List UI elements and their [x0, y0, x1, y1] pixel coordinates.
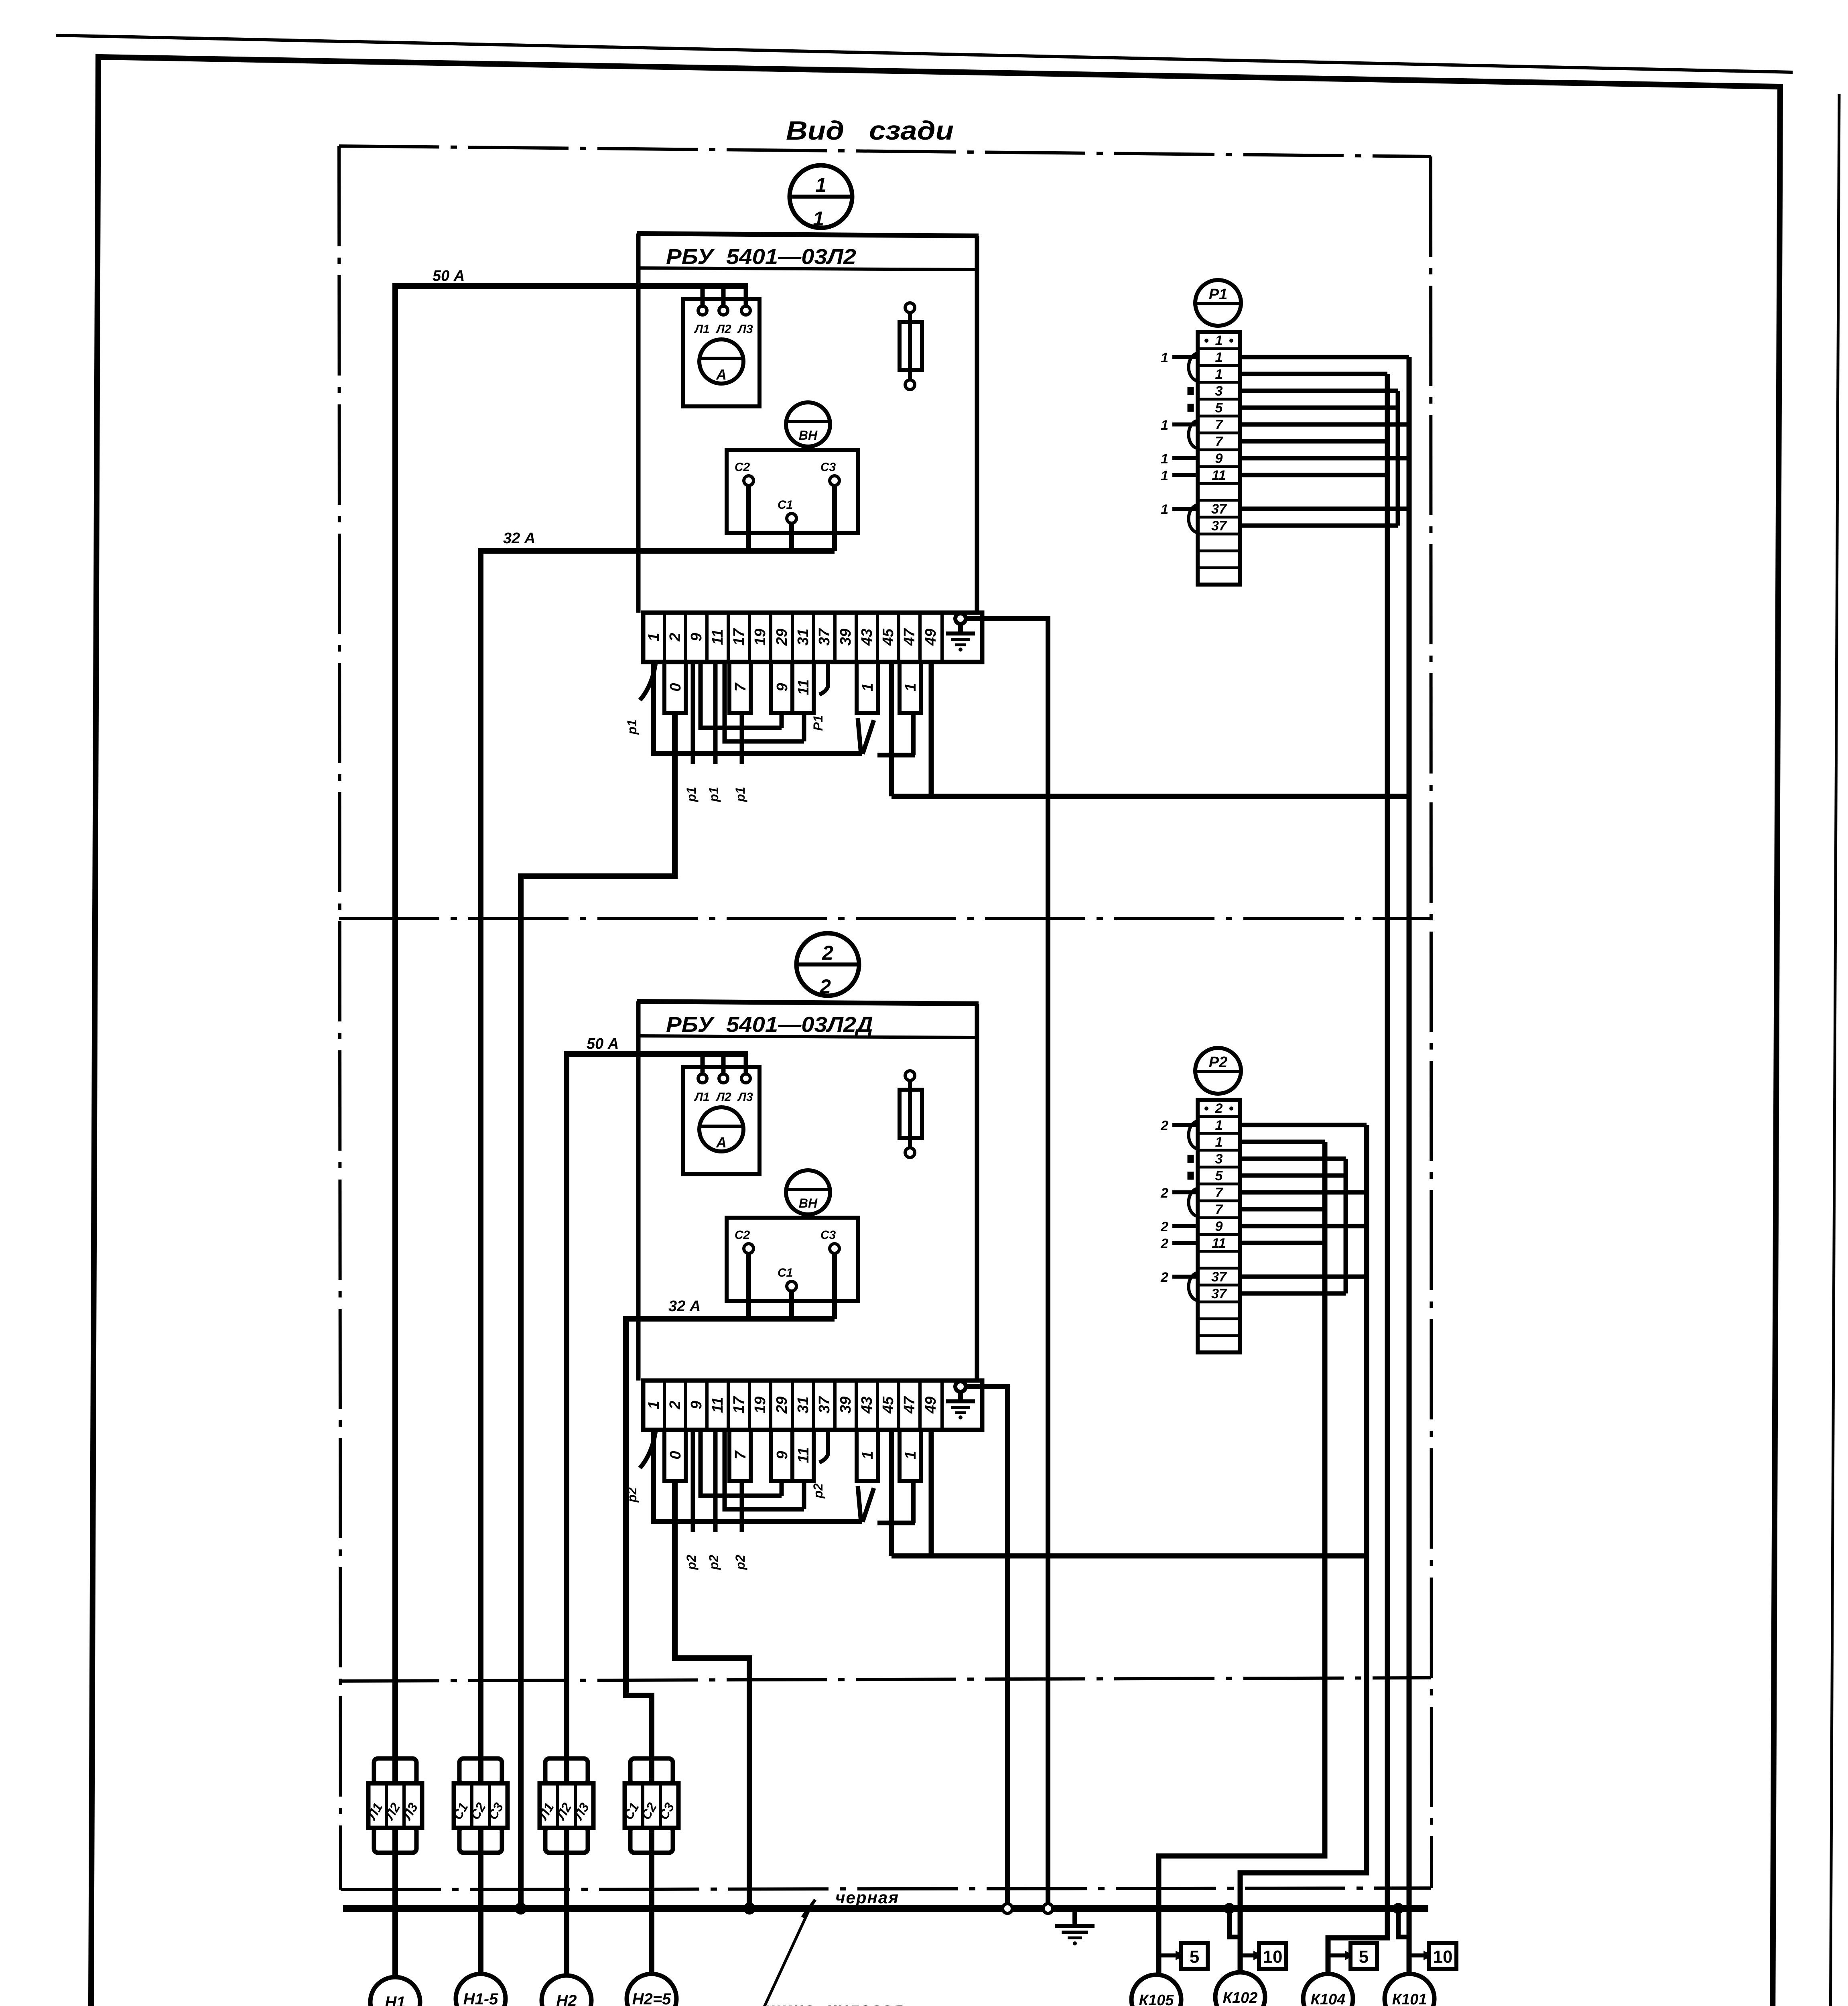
svg-text:1: 1	[1161, 451, 1168, 467]
terminal block P2	[1172, 1048, 1241, 1352]
neutral bus (chernaya)	[343, 1905, 1428, 1912]
svg-text:32 А: 32 А	[503, 530, 535, 547]
svg-text:1: 1	[1161, 468, 1168, 483]
fuse group 2 C1C2C3	[478, 1784, 483, 1974]
P1 ladder wires to buses	[1240, 357, 1409, 526]
motor circle N2	[542, 1976, 591, 2006]
cable circle K101	[1385, 1974, 1434, 2006]
svg-text:р1: р1	[733, 787, 747, 802]
svg-text:К104: К104	[1311, 1991, 1346, 2006]
junction dot neutral unit2	[743, 1902, 755, 1915]
P1 right bus down to K101	[1407, 357, 1412, 1975]
fuse group 1 L1L2L3	[392, 1759, 398, 1977]
svg-text:К101: К101	[1392, 1991, 1427, 2006]
panel outline dash-dot right edge	[1431, 156, 1432, 1888]
ground symbol on bus	[1055, 1909, 1095, 1945]
junction dot neutral unit1	[515, 1902, 527, 1915]
svg-text:10: 10	[1263, 1947, 1283, 1967]
P2 wire-number tags	[1160, 1118, 1168, 1285]
P1 header cell	[1204, 333, 1233, 348]
wire neutral 0 of unit 1 to bus	[521, 713, 675, 1909]
svg-text:32 А: 32 А	[668, 1298, 701, 1315]
svg-text:р1: р1	[625, 719, 639, 735]
svg-text:Вид сзади: Вид сзади	[786, 116, 954, 145]
svg-text:р2: р2	[684, 1555, 699, 1570]
svg-text:1: 1	[1161, 418, 1168, 433]
svg-text:1: 1	[815, 174, 827, 196]
panel section separator dash-dot line (middle)	[339, 917, 1431, 920]
page right edge thin line	[1830, 94, 1839, 2006]
cable marker 5 at K105	[1159, 1943, 1208, 1969]
wire 50A feed unit 2	[567, 1054, 703, 1759]
junction open circle ground unit1	[1043, 1904, 1053, 1913]
bus slash mark	[802, 1900, 815, 1917]
svg-text:Р1: Р1	[1209, 286, 1227, 303]
svg-text:РБУ 5401—03Л2Д: РБУ 5401—03Л2Д	[666, 1013, 873, 1037]
panel outline dash-dot top edge	[339, 146, 1431, 156]
junction dot K102 tap	[1224, 1903, 1235, 1914]
motor circle N2-5	[627, 1974, 676, 2006]
svg-text:5: 5	[1359, 1947, 1369, 1967]
svg-text:1: 1	[1161, 350, 1168, 365]
cable marker 10 at K102	[1240, 1943, 1286, 1969]
view marker circle 2/2	[796, 933, 859, 996]
svg-text:1: 1	[813, 207, 824, 230]
panel outline dash-dot bottom edge	[341, 1888, 1431, 1890]
junction open circle ground unit2	[1003, 1904, 1012, 1913]
P2 right bus down to K102	[1240, 1125, 1367, 1972]
svg-text:К102: К102	[1223, 1990, 1258, 2006]
wire ground terminal unit 2	[966, 1387, 1007, 1909]
motor circle N1	[370, 1977, 420, 2006]
svg-text:50 А: 50 А	[433, 268, 465, 284]
switchboard unit 2 RBU 5401-03L2D	[637, 1001, 982, 1532]
tag labels r2 of unit 2	[625, 1483, 825, 1570]
svg-text:2: 2	[1215, 1101, 1223, 1116]
svg-text:черная: черная	[835, 1888, 899, 1907]
cable circle K102	[1215, 1972, 1265, 2006]
leader line shina nulevaya	[757, 1911, 984, 2006]
svg-text:р1: р1	[707, 787, 721, 802]
junction dot K101 tap	[1393, 1903, 1404, 1914]
svg-text:2: 2	[1160, 1270, 1168, 1285]
svg-text:р2: р2	[625, 1487, 639, 1503]
svg-text:1: 1	[1215, 333, 1223, 348]
cable circle K104	[1303, 1974, 1353, 2006]
wire 32A feed unit 2	[626, 1319, 749, 1784]
svg-text:Р2: Р2	[1209, 1054, 1227, 1071]
P1 left bus down to K104	[1328, 374, 1387, 1975]
svg-text:Н1-5: Н1-5	[463, 1990, 498, 2006]
svg-text:РБУ 5401—03Л2: РБУ 5401—03Л2	[666, 245, 856, 269]
svg-text:К105: К105	[1139, 1992, 1174, 2006]
svg-text:р2: р2	[733, 1555, 747, 1570]
view marker circle 1/1	[790, 165, 852, 228]
P2 ladder wires to buses	[1240, 1125, 1367, 1293]
svg-text:1: 1	[1161, 502, 1168, 517]
wire ground terminal unit 1	[966, 619, 1048, 1909]
svg-text:2: 2	[1160, 1118, 1168, 1133]
switchboard unit 1 RBU 5401-03L2	[637, 233, 982, 764]
wire neutral 0 of unit 2 to bus	[675, 1481, 749, 1909]
svg-text:Н2: Н2	[556, 1992, 577, 2006]
svg-text:10: 10	[1433, 1947, 1453, 1967]
panel outline dash-dot left edge	[339, 146, 341, 1890]
svg-text:5: 5	[1190, 1947, 1199, 1967]
page top thin line	[56, 35, 1793, 72]
P1 wire-number tags	[1161, 350, 1168, 517]
svg-text:2: 2	[1160, 1219, 1168, 1234]
wire from terminals 45/49 of unit 2 to P2 bus	[892, 1430, 1367, 1556]
fuse group 3 L1L2L3	[564, 1759, 569, 1976]
motor circle N1-5	[456, 1974, 506, 2006]
wire 50A feed unit 1	[395, 286, 703, 1759]
svg-text:2: 2	[1160, 1236, 1168, 1251]
fuse group 4 C1C2C3	[649, 1784, 654, 1974]
P2 header cell	[1204, 1101, 1233, 1116]
svg-text:Н2=5: Н2=5	[632, 1990, 671, 2006]
svg-text:2: 2	[819, 975, 831, 998]
cable marker 5 at K104	[1328, 1943, 1377, 1969]
wire from terminals 45/49 of unit 1 to P1 bus	[892, 662, 1409, 796]
svg-text:р1: р1	[684, 787, 699, 802]
panel section separator dash-dot line (lower)	[339, 1678, 1431, 1681]
bus tap to K101 cable	[1398, 1909, 1409, 1937]
svg-text:50 А: 50 А	[587, 1035, 619, 1052]
cable marker 10 at K101	[1409, 1943, 1456, 1969]
svg-text:шина нулевая: шина нулевая	[765, 1999, 904, 2006]
svg-text:р2: р2	[811, 1483, 825, 1499]
cable circle K105	[1131, 1975, 1181, 2006]
svg-text:Р1: Р1	[811, 715, 825, 731]
svg-text:2: 2	[1160, 1186, 1168, 1201]
bus tap to K102 cable	[1229, 1909, 1240, 1937]
svg-text:Н1: Н1	[385, 1994, 405, 2006]
svg-text:2: 2	[822, 942, 833, 964]
svg-text:р2: р2	[707, 1555, 721, 1570]
terminal block P1	[1172, 280, 1241, 585]
wire 32A feed unit 1	[481, 551, 749, 1784]
tag labels r1 of unit 1	[625, 715, 825, 802]
P2 left bus down to K105	[1159, 1142, 1325, 1975]
